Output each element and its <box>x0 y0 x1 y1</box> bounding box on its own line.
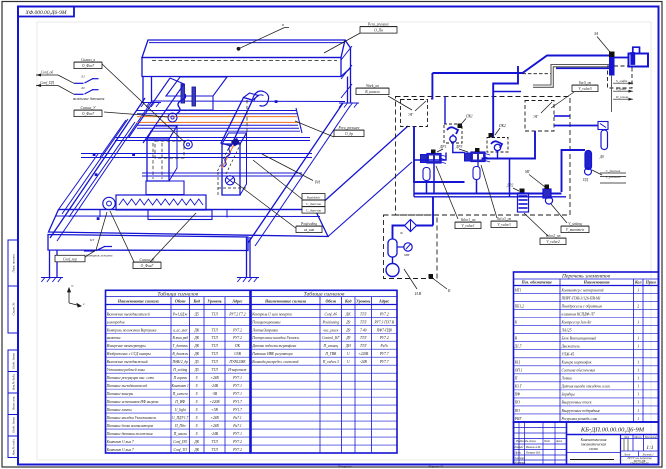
support column top/right faces <box>222 133 247 144</box>
svg-text:РУ1.7: РУ1.7 <box>232 400 242 404</box>
svg-text:1: 1 <box>637 345 639 349</box>
svg-text:МН: МН <box>403 253 410 257</box>
front-left leg <box>49 250 51 278</box>
svg-text:ТТЛ: ТТЛ <box>211 344 218 348</box>
svg-text:1:1: 1:1 <box>646 445 654 451</box>
svg-text:П_ИФ: П_ИФ <box>174 400 185 404</box>
svg-text:ДР3: ДР3 <box>455 145 462 149</box>
callout RI <box>262 154 313 181</box>
svg-text:ПБ1,2: ПБ1,2 <box>514 304 524 309</box>
carriage plate top face <box>166 77 227 96</box>
svg-text:ТТЛ: ТТЛ <box>211 312 218 316</box>
svg-text:Conf_об: Conf_об <box>41 71 54 75</box>
svg-text:Рн7.1: Рн7.1 <box>232 416 242 420</box>
svg-text:П_ГВВ: П_ГВВ <box>324 352 337 356</box>
svg-text:К3.Т: К3.Т <box>514 385 523 389</box>
svg-text:S_лифт: S_лифт <box>616 79 628 83</box>
svg-text:1: 1 <box>637 337 639 341</box>
svg-text:Дата: Дата <box>555 440 563 443</box>
base right side rail diagonal <box>248 103 343 243</box>
svg-text:Контакт U вых 7: Контакт U вых 7 <box>106 448 134 452</box>
svg-text:Ресурсная рознобь слив: Ресурсная рознобь слив <box>561 417 598 421</box>
beam right end face <box>341 40 351 77</box>
svg-text:ОП.1: ОП.1 <box>515 369 523 373</box>
svg-text:ЛА125: ЛА125 <box>561 328 572 332</box>
svg-text:Адрес: Адрес <box>231 298 242 303</box>
main bus lines <box>414 193 562 195</box>
svg-text:ДН: ДН <box>345 344 351 348</box>
svg-text:РУ7.2: РУ7.2 <box>379 312 389 316</box>
svg-text:Контроль положения Вертушки: Контроль положения Вертушки <box>106 328 157 332</box>
svg-text:чис_улиск: чис_улиск <box>323 328 338 332</box>
svg-text:ДК: ДК <box>193 344 199 348</box>
svg-text:Conf_ПО: Conf_ПО <box>173 440 187 444</box>
svg-text:U: U <box>347 360 350 364</box>
junction node squares <box>93 153 96 156</box>
svg-text:ПК: ПК <box>234 344 241 348</box>
svg-text:Сигнал_У: Сигнал_У <box>81 106 97 110</box>
svg-text:+24В: +24В <box>210 424 219 428</box>
svg-text:ПФ7-ПД8: ПФ7-ПД8 <box>376 328 392 332</box>
svg-text:Питание камеры: Питание камеры <box>106 392 134 396</box>
beam top edge double line <box>149 42 344 44</box>
leaning arm slab <box>221 98 253 147</box>
svg-text:УЛЖ-45: УЛЖ-45 <box>562 353 575 357</box>
screw motor blob <box>232 138 241 147</box>
svg-text:РУ7.2: РУ7.2 <box>232 448 242 452</box>
callout stack razblokir <box>253 160 302 199</box>
svg-text:КБ-ДП.00.00.00.Д6-9М: КБ-ДП.00.00.00.Д6-9М <box>580 427 645 434</box>
svg-text:1: 1 <box>637 409 639 413</box>
valve PK2 symbol <box>491 141 502 148</box>
axis symbol <box>68 288 82 307</box>
top-left document number stamp <box>18 7 74 17</box>
svg-text:V_valve5: V_valve5 <box>578 87 592 91</box>
svg-text:U: U <box>195 424 198 428</box>
svg-text:ХФ.000.00.Д6-9М: ХФ.000.00.Д6-9М <box>25 10 67 16</box>
valve ZA bar <box>610 54 615 75</box>
svg-text:Блок Вентиляционный: Блок Вентиляционный <box>561 336 597 341</box>
slot edge lines low <box>142 172 302 174</box>
svg-text:Компьютер с материнской: Компьютер с материнской <box>561 287 604 292</box>
piezo base circle <box>168 113 177 122</box>
callout Vac5_on <box>551 92 574 108</box>
svg-text:Т.контр.: Т.контр. <box>515 457 525 460</box>
svg-text:Рн7к: Рн7к <box>380 344 389 348</box>
sensor capsule D0 <box>601 130 608 150</box>
svg-text:Кол: Кол <box>634 280 642 285</box>
svg-text:электродов: электродов <box>107 320 125 324</box>
svg-text:Питание пьезодвигателей: Питание пьезодвигателей <box>106 383 148 388</box>
machine back rail beam front face <box>142 58 341 77</box>
svg-text:1: 1 <box>637 393 639 397</box>
svg-text:П: П <box>514 377 518 381</box>
band tick marks <box>99 210 101 218</box>
svg-text:ДК: ДК <box>193 336 199 340</box>
svg-text:ТТЛ: ТТЛ <box>360 336 367 340</box>
svg-text:Поз. обозначение: Поз. обозначение <box>521 280 553 285</box>
schematic main dashed enclosure <box>396 97 571 216</box>
slot edge lines mid <box>115 137 310 139</box>
svg-text:Питание источников ИФ нагрева: Питание источников ИФ нагрева <box>106 400 159 404</box>
optical beam orange lines <box>137 116 297 118</box>
element list table (Perechen elementov) <box>514 272 659 422</box>
svg-text:+24В: +24В <box>210 416 219 420</box>
central column right face <box>169 126 177 181</box>
svg-text:У: У <box>71 284 74 288</box>
svg-text:Т_датчик: Т_датчик <box>173 344 189 348</box>
svg-text:+220В: +220В <box>209 400 220 404</box>
compressor pipes <box>393 226 405 240</box>
extra left end diagonals <box>62 119 128 214</box>
schematic callouts bottom <box>436 166 458 219</box>
solenoid valve DR3 <box>471 152 485 162</box>
pipe PK1 riser <box>431 98 433 100</box>
svg-text:U: U <box>347 352 350 356</box>
solenoid valve DR1 <box>427 154 441 164</box>
title block (osnovnaya nadpis) <box>514 422 659 465</box>
svg-text:ДК: ДК <box>193 448 199 452</box>
svg-text:С_датчик: С_датчик <box>606 169 621 173</box>
back-right leg brace hatches <box>341 46 352 60</box>
svg-text:П_сопла: П_сопла <box>615 95 628 99</box>
compressor filter diamond <box>405 220 417 232</box>
svg-text:ПИРГ-ПЭВ-3/126-ПВ-М1: ПИРГ-ПЭВ-3/126-ПВ-М1 <box>561 296 601 300</box>
svg-text:Conf_пер: Conf_пер <box>63 257 77 261</box>
svg-text:ПУВ12МК: ПУВ12МК <box>228 360 246 364</box>
svg-text:+24В: +24В <box>210 376 219 380</box>
svg-text:Лист: Лист <box>623 453 631 456</box>
svg-text:U_ПДУ1,7: U_ПДУ1,7 <box>172 416 188 421</box>
svg-text:ПО: ПО <box>514 409 521 413</box>
svg-text:Включение пьезодвижений: Включение пьезодвижений <box>107 359 148 364</box>
svg-text:Камера широкофок: Камера широкофок <box>561 361 592 365</box>
svg-text:ТТЛ: ТТЛ <box>360 344 367 348</box>
svg-text:Н.контр.: Н.контр. <box>514 461 526 464</box>
tabletop front rim line <box>56 215 320 218</box>
svg-text:Пров.: Пров. <box>514 451 522 454</box>
dashed box near column <box>155 141 184 158</box>
back-left leg <box>142 77 144 103</box>
svg-text:Датчик подъема термофена: Датчик подъема термофена <box>251 344 296 348</box>
black node square <box>429 274 434 279</box>
svg-text:О_Пн: О_Пн <box>374 29 383 33</box>
svg-text:включение датчиков: включение датчиков <box>73 97 105 101</box>
svg-text:Сигнал_К: Сигнал_К <box>140 258 156 262</box>
svg-text:ТТЛ: ТТЛ <box>211 336 218 340</box>
svg-text:В_движен: В_движен <box>172 352 188 356</box>
beam hidden edge dashed <box>152 60 337 62</box>
svg-text:ДР1: ДР1 <box>439 145 446 149</box>
valve PK1 symbol <box>447 127 458 134</box>
svg-text:+220В: +220В <box>358 352 369 356</box>
svg-text:Разраб.: Разраб. <box>514 446 524 449</box>
svg-text:П_свинец: П_свинец <box>322 344 338 348</box>
svg-text:Код: Код <box>193 298 201 303</box>
linear rails bundle <box>137 108 302 133</box>
svg-text:П_valves.3: П_valves.3 <box>322 360 339 364</box>
svg-text:Наименование сигнала: Наименование сигнала <box>264 298 306 303</box>
svg-text:РУ7.1: РУ7.1 <box>232 432 242 436</box>
valve ZA black square <box>609 52 615 58</box>
svg-text:7-40: 7-40 <box>360 328 367 332</box>
svg-text:РУ7.1: РУ7.1 <box>232 384 242 388</box>
svg-text:Система обеспечения: Система обеспечения <box>562 369 596 373</box>
svg-text:Л1: Л1 <box>80 75 85 79</box>
svg-text:Справ. №: Справ. № <box>12 303 16 316</box>
svg-text:С_датчик: С_датчик <box>306 209 322 213</box>
compressor unit: receiver capsule <box>388 239 397 257</box>
svg-text:Ф: Ф <box>400 231 403 235</box>
pipes middle net <box>414 127 465 183</box>
svg-text:схема: схема <box>589 447 598 451</box>
svg-text:Кинематическая: Кинематическая <box>580 438 607 442</box>
tabletop right end slant edges <box>315 126 408 210</box>
svg-text:Компрессор Jun-Air: Компрессор Jun-Air <box>561 320 593 324</box>
circle sensor right of column <box>184 140 193 149</box>
svg-text:ПК1: ПК1 <box>465 115 473 119</box>
central column front face <box>147 139 169 181</box>
svg-text:Уровень: Уровень <box>356 298 370 303</box>
svg-text:Питание насадки Увлажнитель: Питание насадки Увлажнитель <box>106 416 157 420</box>
svg-text:1: 1 <box>637 417 639 421</box>
svg-text:U: U <box>195 392 198 396</box>
svg-text:намотки: намотки <box>107 336 121 340</box>
dashed vertical through arm <box>246 100 248 133</box>
valve PK2 dashed <box>487 138 508 153</box>
svg-text:Питание резервуара выс. сети: Питание резервуара выс. сети <box>106 376 155 380</box>
svg-text:Перечень элементов: Перечень элементов <box>561 274 611 280</box>
column screw squiggle <box>224 145 232 167</box>
svg-text:ТТЛ: ТТЛ <box>211 352 218 356</box>
nozzle head <box>614 57 629 59</box>
svg-text:МГ: МГ <box>524 170 531 174</box>
svg-text:Питание блока вентиляторов: Питание блока вентиляторов <box>106 424 154 428</box>
valve PK1 dashed <box>444 124 462 143</box>
svg-text:ТТЛ: ТТЛ <box>211 368 218 372</box>
svg-text:1: 1 <box>637 385 639 389</box>
compressor gauge MN <box>404 243 412 251</box>
svg-text:К: К <box>447 289 451 293</box>
svg-text:Наименование: Наименование <box>583 280 610 285</box>
svg-text:Перв. примен.: Перв. примен. <box>12 253 16 273</box>
svg-text:Work_on: Work_on <box>366 84 379 88</box>
svg-text:В_начало: В_начало <box>365 90 380 94</box>
svg-text:РУ7.7: РУ7.7 <box>379 352 389 356</box>
svg-text:ПдВ12_др: ПдВ12_др <box>171 360 188 364</box>
column dashed hidden lines <box>217 172 219 195</box>
svg-text:РИГ: РИГ <box>514 417 523 421</box>
svg-text:Формат А1: Формат А1 <box>429 464 444 468</box>
throttle BD and pipe above D0 <box>554 125 598 127</box>
svg-text:а_фикс: а_фикс <box>616 87 627 91</box>
svg-text:Уровень: Уровень <box>207 298 221 303</box>
svg-text:РУ7.2: РУ7.2 <box>232 336 242 340</box>
svg-text:Питание датчика положения: Питание датчика положения <box>106 432 153 436</box>
tabletop back edge <box>152 100 345 103</box>
svg-text:ТТЛ: ТТЛ <box>211 328 218 332</box>
svg-text:Лотка: Лотка <box>561 377 572 381</box>
svg-text:Наименование сигнала: Наименование сигнала <box>117 298 159 303</box>
front-left leg ground <box>41 277 63 279</box>
pipe: lower nozzle line <box>556 67 609 69</box>
svg-text:И.В: И.В <box>414 292 422 296</box>
svg-text:V_valve3: V_valve3 <box>497 223 511 227</box>
DR1 exhaust cylinder <box>423 168 430 181</box>
pipe PK2 down <box>497 151 499 159</box>
svg-text:ТТЛ: ТТЛ <box>211 448 218 452</box>
svg-text:u_ac_star: u_ac_star <box>173 328 188 332</box>
back-right leg <box>347 77 349 104</box>
support column front face <box>222 144 240 195</box>
svg-text:2: 2 <box>637 304 639 308</box>
callout C_datchik <box>592 170 602 175</box>
svg-text:Обозн: Обозн <box>325 298 336 303</box>
front-right leg <box>246 237 248 278</box>
svg-text:Пневдроссель с обратным: Пневдроссель с обратным <box>561 304 603 308</box>
svg-text:ЭГ: ЭГ <box>408 112 414 117</box>
svg-text:V_manometr: V_manometr <box>566 228 585 232</box>
svg-text:ПФ: ПФ <box>514 393 521 397</box>
svg-text:клапаном КСПДФ-Л7: клапаном КСПДФ-Л7 <box>562 312 595 316</box>
svg-text:П_Пдо: П_Пдо <box>174 424 186 428</box>
svg-text:Лит: Лит <box>623 436 629 439</box>
svg-text:U_light: U_light <box>175 408 187 412</box>
svg-text:О_Физ7: О_Физ7 <box>82 64 94 68</box>
left margin frame boxes <box>8 240 18 458</box>
valve MG <box>543 189 551 198</box>
svg-text:U: U <box>195 376 198 380</box>
svg-text:Взам. инв.: Взам. инв. <box>12 396 16 410</box>
svg-text:ТТЛ: ТТЛ <box>360 320 367 324</box>
svg-text:Д5: Д5 <box>194 360 199 364</box>
flange circle x-cross <box>225 176 234 185</box>
svg-text:ТТЛ: ТТЛ <box>211 440 218 444</box>
svg-text:U: U <box>195 384 198 388</box>
callout Conf_per <box>55 255 85 261</box>
svg-text:Зарядцы: Зарядцы <box>562 393 576 397</box>
svg-text:Движитель: Движитель <box>561 345 580 349</box>
svg-text:Pera_pressure: Pera_pressure <box>367 23 389 27</box>
svg-text:Рн7.1: Рн7.1 <box>232 424 242 428</box>
back-right leg ground <box>339 102 359 104</box>
sensor capsule D blue <box>585 151 592 170</box>
svg-text:Vac5_on: Vac5_on <box>579 81 592 85</box>
svg-text:Включение пьезодвигателей: Включение пьезодвигателей <box>107 311 150 316</box>
svg-text:РИ: РИ <box>314 181 320 185</box>
svg-text:ТТЛ: ТТЛ <box>211 360 218 364</box>
svg-text:Изображение с ССД камеры: Изображение с ССД камеры <box>106 352 152 356</box>
svg-text:Масштаб: Масштаб <box>644 436 657 439</box>
svg-text:Д5: Д5 <box>194 368 199 372</box>
svg-text:-24В: -24В <box>211 384 219 388</box>
svg-text:ПО: ПО <box>514 401 521 405</box>
svg-text:С_датчик: С_датчик <box>306 202 322 206</box>
svg-text:Т_pressure: Т_pressure <box>605 175 621 179</box>
svg-text:Подп.: Подп. <box>543 440 551 443</box>
svg-text:Прим: Прим <box>645 280 656 285</box>
svg-text:Д9: Д9 <box>345 328 350 332</box>
svg-text:РУ7.2 Г7.2: РУ7.2 Г7.2 <box>228 312 245 316</box>
svg-text:Д1,7: Д1,7 <box>514 345 522 350</box>
svg-text:№ докум.: № докум. <box>525 440 537 443</box>
svg-text:1: 1 <box>637 369 639 373</box>
svg-text:ПД: ПД <box>582 178 589 182</box>
svg-text:Обозн: Обозн <box>175 298 186 303</box>
svg-text:Выгрузочные подзрядные: Выгрузочные подзрядные <box>562 409 601 413</box>
carriage plate front face <box>166 96 213 110</box>
piezo spring wire <box>176 94 186 114</box>
signal table right <box>251 290 397 453</box>
machine back rail beam top face <box>142 40 345 58</box>
svg-text:РУ7.2: РУ7.2 <box>232 328 242 332</box>
svg-text:ПК2: ПК2 <box>498 124 506 128</box>
svg-text:О_др: О_др <box>345 132 353 136</box>
thin control line below ZA <box>611 75 613 112</box>
svg-text:Установка рабочей зоны: Установка рабочей зоны <box>107 367 146 372</box>
svg-text:Выгрузочные отсек: Выгрузочные отсек <box>562 401 592 405</box>
svg-text:Иванов А.М.: Иванов А.М. <box>525 446 541 449</box>
svg-text:Позиционирование: Позиционирование <box>251 320 281 324</box>
arm hook curl <box>253 91 269 106</box>
svg-text:Контроль U шла поверта: Контроль U шла поверта <box>251 312 292 316</box>
svg-text:Pw1,6Дж: Pw1,6Дж <box>172 312 188 317</box>
svg-text:О_Фин7: О_Фин7 <box>141 264 154 268</box>
svg-text:+5В: +5В <box>211 408 218 412</box>
piezo pin 2 <box>192 87 196 106</box>
central column base flange <box>146 181 184 195</box>
svg-text:РУ7.3 ПЭ7.В: РУ7.3 ПЭ7.В <box>373 320 394 324</box>
svg-text:ДК: ДК <box>193 328 199 332</box>
dashed stub right of bend <box>523 73 552 75</box>
svg-text:U: U <box>195 408 198 412</box>
throttle DR2 stack <box>520 189 525 194</box>
svg-text:1: 1 <box>637 320 639 324</box>
svg-text:ДК: ДК <box>193 352 199 356</box>
svg-text:Таблица сигналов: Таблица сигналов <box>304 290 345 297</box>
svg-text:U: U <box>195 400 198 404</box>
svg-text:1: 1 <box>637 288 639 292</box>
gray control bundle <box>533 65 609 86</box>
svg-text:О_Физ7: О_Физ7 <box>82 112 94 116</box>
pipe: main top line to nozzle <box>432 56 609 74</box>
svg-text:И-каротаж: И-каротаж <box>227 368 247 372</box>
svg-text:Control_КГ: Control_КГ <box>322 336 340 340</box>
svg-text:1: 1 <box>637 377 639 381</box>
pipe EG right to dashed edge <box>554 115 570 117</box>
svg-text:1: 1 <box>637 401 639 405</box>
svg-text:Л2: Л2 <box>80 86 85 90</box>
piezo pin 1 <box>181 84 185 103</box>
svg-text:Д0: Д0 <box>599 155 604 159</box>
svg-text:Д9: Д9 <box>345 336 350 340</box>
svg-text:Д5: Д5 <box>194 312 199 316</box>
svg-text:ЗА: ЗА <box>594 32 599 36</box>
svg-text:Копировал: Копировал <box>337 464 352 468</box>
svg-text:РУ7.2: РУ7.2 <box>232 440 242 444</box>
svg-text:П_setting: П_setting <box>172 368 187 372</box>
svg-text:Измерение температуры: Измерение температуры <box>106 344 146 348</box>
svg-text:Датчик выхода отсадочн. клап.: Датчик выхода отсадочн. клап. <box>561 385 611 389</box>
svg-text:Контакт U вых 7: Контакт U вых 7 <box>106 440 134 444</box>
svg-text:Conf_ТО: Conf_ТО <box>174 448 188 452</box>
svg-text:ДК: ДК <box>193 440 199 444</box>
svg-text:Код: Код <box>344 298 352 303</box>
svg-text:Posfeeding: Posfeeding <box>300 222 317 226</box>
svg-text:-24В: -24В <box>211 432 219 436</box>
svg-text:РУ7.2: РУ7.2 <box>379 336 389 340</box>
svg-text:Питание ИВЕ регулятора: Питание ИВЕ регулятора <box>251 352 293 356</box>
